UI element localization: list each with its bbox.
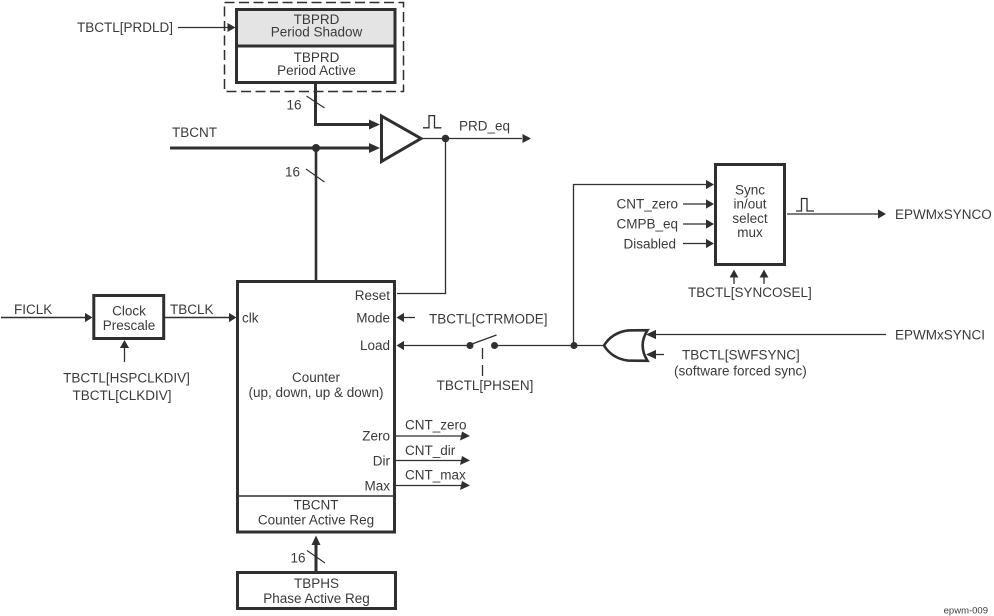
svg-text:TBCTL[PHSEN]: TBCTL[PHSEN] bbox=[437, 378, 534, 393]
label TBCTL[CLKDIV] bbox=[72, 388, 171, 403]
wire CNT_zero to mux bbox=[616, 197, 714, 212]
svg-text:clk: clk bbox=[242, 310, 259, 325]
svg-text:Counter Active Reg: Counter Active Reg bbox=[258, 512, 374, 527]
wire sync to mux input bbox=[574, 180, 715, 346]
svg-text:CMPB_eq: CMPB_eq bbox=[616, 217, 678, 232]
wire EPWMxSYNCI to OR gate bbox=[646, 327, 985, 342]
block Sync in/out select mux bbox=[716, 165, 785, 265]
wire 16-bit bus TBPRD to comparator bbox=[316, 84, 381, 130]
dashed shadow/active group box bbox=[225, 3, 404, 92]
svg-text:EPWMxSYNCO: EPWMxSYNCO bbox=[895, 207, 992, 222]
label TBCNT bbox=[172, 125, 217, 140]
svg-text:TBCNT: TBCNT bbox=[172, 125, 217, 140]
svg-text:Disabled: Disabled bbox=[623, 236, 676, 251]
junction PRD_eq bbox=[442, 135, 450, 143]
svg-text:CNT_max: CNT_max bbox=[405, 467, 466, 482]
svg-text:CNT_zero: CNT_zero bbox=[405, 417, 467, 432]
pulse symbol EPWMxSYNCO bbox=[796, 199, 814, 212]
svg-text:in/out: in/out bbox=[733, 197, 766, 212]
svg-text:Load: Load bbox=[360, 338, 390, 353]
wire CNT_max output bbox=[396, 467, 470, 490]
wire PRD_eq output bbox=[423, 134, 532, 143]
svg-text:16: 16 bbox=[290, 550, 305, 565]
label TBCTL[PRDLD] bbox=[77, 20, 173, 35]
svg-text:FICLK: FICLK bbox=[14, 302, 52, 317]
svg-text:(up, down, up & down): (up, down, up & down) bbox=[248, 385, 383, 400]
wire TBCTL[CTRMODE] to Mode bbox=[397, 311, 548, 326]
svg-text:Reset: Reset bbox=[355, 288, 391, 303]
svg-text:TBCTL[CLKDIV]: TBCTL[CLKDIV] bbox=[72, 388, 171, 403]
svg-text:16: 16 bbox=[285, 165, 300, 180]
wire TBCNT to comparator bbox=[170, 143, 380, 153]
wire EPWMxSYNCO output bbox=[787, 207, 992, 222]
svg-text:Zero: Zero bbox=[362, 428, 390, 443]
bus width slash 16 (bottom) bbox=[290, 550, 325, 565]
svg-text:epwm-009: epwm-009 bbox=[944, 606, 988, 616]
svg-text:Counter: Counter bbox=[292, 370, 341, 385]
comparator (period equal) bbox=[382, 116, 422, 162]
svg-text:TBCTL[CTRMODE]: TBCTL[CTRMODE] bbox=[429, 311, 548, 326]
svg-text:Prescale: Prescale bbox=[103, 318, 156, 333]
label TBCTL[HSPCLKDIV] bbox=[63, 370, 190, 385]
svg-text:TBCTL[HSPCLKDIV]: TBCTL[HSPCLKDIV] bbox=[63, 370, 190, 385]
svg-text:Sync: Sync bbox=[735, 182, 765, 197]
svg-text:TBCTL[SYNCOSEL]: TBCTL[SYNCOSEL] bbox=[688, 285, 812, 300]
wire Disabled to mux bbox=[623, 236, 714, 251]
svg-text:CNT_dir: CNT_dir bbox=[405, 443, 456, 458]
switch control dashed link TBCTL[PHSEN] bbox=[437, 348, 534, 393]
wire FICLK to Clock Prescale bbox=[1, 313, 93, 322]
svg-text:EPWMxSYNCI: EPWMxSYNCI bbox=[895, 327, 985, 342]
wire PRD_eq to counter Reset bbox=[397, 139, 446, 294]
OR gate (sync sources, facing left) bbox=[604, 330, 648, 361]
junction TBCNT bus bbox=[312, 144, 320, 152]
wire TBCLK to counter clk bbox=[165, 313, 237, 322]
wire TBCTL[SWFSYNC] to OR gate bbox=[646, 347, 800, 362]
label FICLK bbox=[14, 302, 52, 317]
svg-text:Dir: Dir bbox=[373, 453, 391, 468]
svg-text:Max: Max bbox=[364, 478, 390, 493]
wire Load line with phase enable switch bbox=[397, 335, 605, 350]
wire TBCTL[PRDLD] to shadow register bbox=[178, 23, 236, 32]
junction load/sync bbox=[571, 342, 578, 349]
svg-text:(software forced sync): (software forced sync) bbox=[674, 364, 807, 379]
wire clock divider select up arrow bbox=[120, 340, 129, 362]
svg-text:Phase Active Reg: Phase Active Reg bbox=[263, 591, 370, 606]
svg-text:TBCTL[SWFSYNC]: TBCTL[SWFSYNC] bbox=[682, 347, 800, 362]
block Counter bbox=[237, 282, 395, 533]
register TBPHS Phase Active Reg bbox=[238, 573, 396, 609]
register TBPRD Period Active bbox=[237, 46, 396, 83]
bus width slash 16 (middle) bbox=[285, 165, 325, 182]
svg-text:Clock: Clock bbox=[112, 304, 146, 319]
label TBCLK bbox=[170, 302, 214, 317]
label (software forced sync) bbox=[674, 364, 807, 379]
svg-text:TBPHS: TBPHS bbox=[294, 576, 339, 591]
wire 16-bit bus TBCNT down to counter bbox=[315, 148, 318, 280]
svg-text:select: select bbox=[732, 211, 768, 226]
svg-text:PRD_eq: PRD_eq bbox=[459, 118, 510, 133]
svg-text:16: 16 bbox=[286, 97, 301, 112]
svg-text:TBCTL[PRDLD]: TBCTL[PRDLD] bbox=[77, 20, 173, 35]
wire 16-bit bus TBPHS to counter bbox=[312, 536, 321, 572]
label epwm-009 bbox=[944, 606, 988, 616]
bus width slash 16 (top) bbox=[286, 96, 324, 112]
wire CNT_dir output bbox=[396, 443, 470, 465]
wire CMPB_eq to mux bbox=[616, 217, 714, 232]
svg-text:Mode: Mode bbox=[356, 310, 390, 325]
register TBPRD Period Shadow bbox=[237, 10, 396, 47]
svg-text:mux: mux bbox=[737, 225, 763, 240]
block Clock Prescale bbox=[94, 296, 164, 339]
svg-text:CNT_zero: CNT_zero bbox=[616, 197, 678, 212]
svg-text:Period Active: Period Active bbox=[277, 63, 356, 78]
pulse symbol PRD_eq bbox=[423, 116, 442, 128]
svg-text:TBCNT: TBCNT bbox=[294, 497, 339, 512]
svg-text:TBCLK: TBCLK bbox=[170, 302, 214, 317]
label TBCTL[SYNCOSEL] with select arrows bbox=[688, 270, 812, 300]
wire CNT_zero output bbox=[396, 417, 470, 440]
label PRD_eq bbox=[459, 118, 510, 133]
svg-text:Period Shadow: Period Shadow bbox=[271, 25, 363, 40]
